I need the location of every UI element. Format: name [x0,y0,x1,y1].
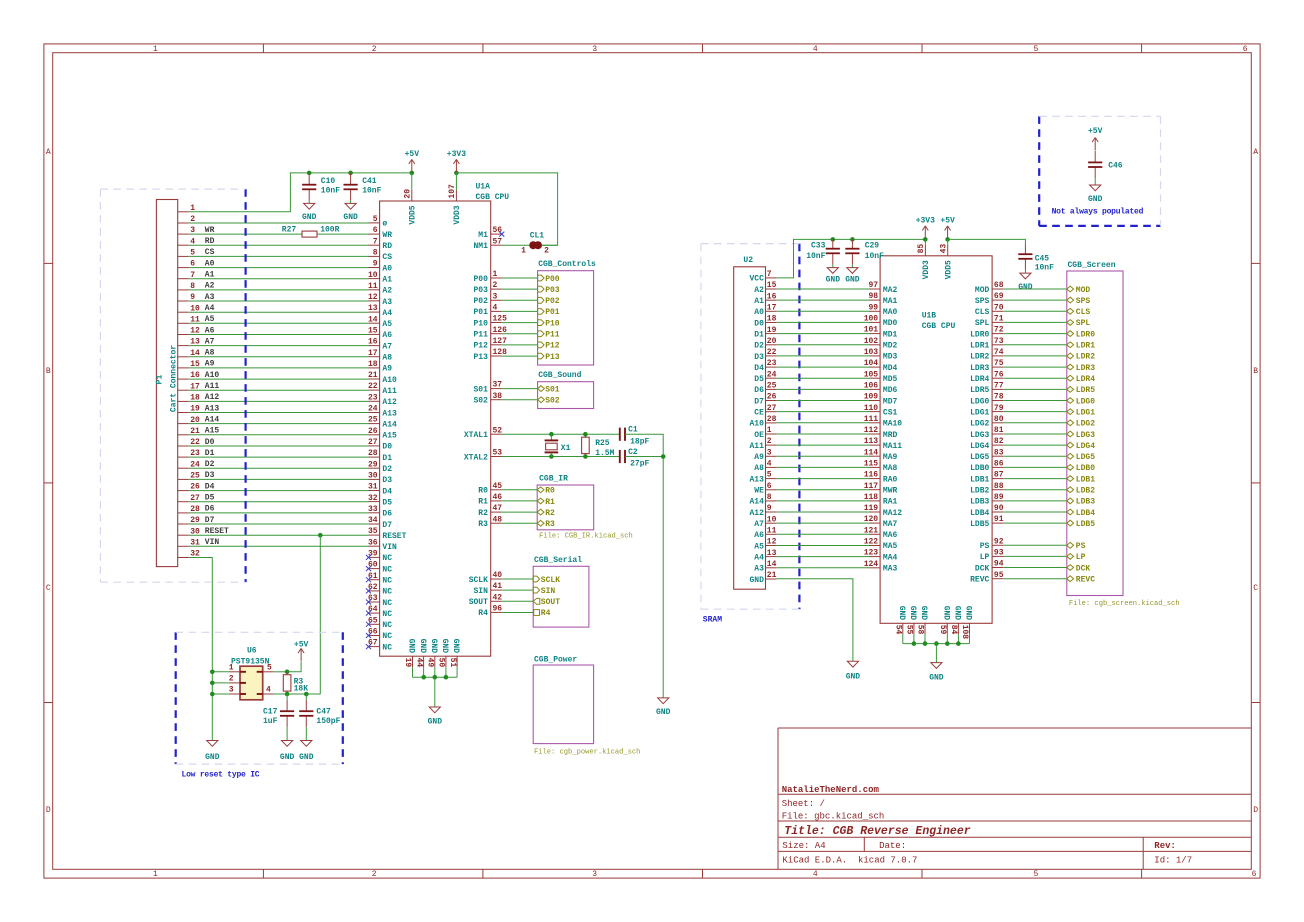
svg-text:MA9: MA9 [883,453,898,462]
svg-text:GND: GND [845,275,860,284]
P1 pin 27 [178,501,189,503]
wire P1-1 to +5V rail [189,173,412,212]
svg-text:83: 83 [994,448,1004,457]
svg-text:Rev:: Rev: [1154,841,1176,851]
U1B pin 113 MA11 [869,444,880,446]
wire U2 VCC [777,239,926,278]
svg-text:D1: D1 [382,454,392,463]
svg-text:DCK: DCK [1076,564,1091,573]
svg-text:SRAM: SRAM [703,616,722,625]
U1A pin 12 A3 [369,300,380,302]
U1A pin 28 D1 [369,456,380,458]
svg-text:WR: WR [205,226,215,235]
svg-text:50: 50 [437,658,446,668]
P1 pin 19 [178,412,189,414]
svg-text:D5: D5 [382,498,392,507]
U1B pin 43 VDD5 [947,245,949,256]
sheet pin S02 [502,399,538,401]
wire P1-19 [189,412,369,414]
svg-text:LDR0: LDR0 [1076,330,1095,339]
U2 pin 13 A4 [766,556,777,558]
svg-text:X1: X1 [561,444,571,453]
U2 pin 2 A11 [766,444,777,446]
svg-text:LDR1: LDR1 [970,342,989,351]
svg-text:+5V: +5V [1088,127,1103,136]
svg-text:A12: A12 [749,509,764,518]
P1 pin 8 [178,289,189,291]
U1A pin 41 SIN [491,589,502,591]
svg-text:A2: A2 [754,286,764,295]
wire U6 pin4 row [274,693,321,695]
U1A pin 107 VDD3 [455,190,457,201]
svg-text:RA0: RA0 [883,475,898,484]
U1A pin 27 D0 [369,445,380,447]
svg-text:39: 39 [368,550,378,559]
wire P1-25 [189,478,369,480]
P1 pin 18 [178,400,189,402]
svg-text:66: 66 [368,628,378,637]
svg-text:MA6: MA6 [883,531,898,540]
svg-text:MD5: MD5 [883,375,898,384]
ground C47 [301,741,312,747]
U6 pin 3 [229,693,240,695]
svg-text:64: 64 [368,605,378,614]
svg-text:A8: A8 [754,464,764,473]
svg-text:LDG5: LDG5 [1076,453,1095,462]
svg-text:VCC: VCC [749,275,764,284]
U1A pin 66 NC [369,635,380,637]
U1A pin 25 A14 [369,423,380,425]
U1B pin 88 LDB2 [992,489,1003,491]
U1A pin 10 A1 [369,278,380,280]
sheet pin R0 [502,489,537,491]
svg-text:MA11: MA11 [883,442,902,451]
svg-text:File: cgb_screen.kicad_sch: File: cgb_screen.kicad_sch [1069,600,1180,608]
svg-text:4: 4 [767,460,772,469]
svg-text:GND: GND [429,639,438,654]
svg-text:A2: A2 [205,282,215,291]
svg-text:65: 65 [368,616,378,625]
svg-text:95: 95 [994,571,1004,580]
svg-text:75: 75 [994,359,1004,368]
svg-text:LDR4: LDR4 [970,375,989,384]
P1 pin 26 [178,490,189,492]
svg-text:CE: CE [754,409,764,418]
svg-text:LP: LP [1076,553,1086,562]
svg-text:CL1: CL1 [530,232,545,241]
U2 pin 27 CE [766,411,777,413]
svg-text:CGB_Controls: CGB_Controls [538,260,596,269]
wire U1A GND bus [412,667,414,677]
wire U2 to U1B MD7 [777,400,869,402]
svg-text:A10: A10 [382,376,397,385]
U1B pin 77 LDR5 [992,388,1003,390]
U1B pin 98 MA1 [869,299,880,301]
wire U2 to U1B MD4 [777,366,869,368]
svg-text:File: gbc.kicad_sch: File: gbc.kicad_sch [782,812,885,822]
U2 pin 10 A7 [766,522,777,524]
svg-text:MA5: MA5 [883,542,898,551]
U1A pin 46 R1 [491,500,502,502]
svg-text:LDR3: LDR3 [970,364,989,373]
wire U2 to U1B MA2 [777,288,869,290]
svg-text:P13: P13 [545,353,560,362]
U1A pin 33 D6 [369,512,380,514]
svg-text:89: 89 [994,493,1004,502]
wire C1 C2 to GND [625,434,663,698]
U1A pin 40 SCLK [491,578,502,580]
svg-text:U2: U2 [743,256,753,265]
svg-text:CS1: CS1 [883,408,898,417]
U1B pin 70 CLS [992,310,1003,312]
sheet pin LDR3 [1003,366,1067,368]
svg-text:D6: D6 [205,505,215,514]
U1B pin 115 MA8 [869,466,880,468]
svg-text:R4: R4 [478,609,488,618]
wire P1-18 [189,400,369,402]
sheet CGB_Power [533,665,593,744]
svg-text:R2: R2 [478,509,488,518]
svg-text:97: 97 [868,281,878,290]
U1A pin 31 D4 [369,490,380,492]
svg-text:LDR3: LDR3 [1076,364,1095,373]
svg-text:P00: P00 [473,275,488,284]
P1 pin 29 [178,523,189,525]
P1 pin 28 [178,512,189,514]
P1 pin 13 [178,345,189,347]
svg-text:51: 51 [448,658,457,668]
svg-text:11: 11 [767,526,777,535]
svg-text:23: 23 [767,359,777,368]
svg-text:16: 16 [368,338,378,347]
U1A pin 6 WR [369,233,380,235]
wire U2 to U1B MD2 [777,344,869,346]
wire U2 to U1B MD1 [777,333,869,335]
svg-text:NC: NC [382,565,392,574]
svg-text:20: 20 [404,189,413,199]
sheet CGB_IR [537,485,594,530]
U1B pin 73 LDR1 [992,344,1003,346]
U2 pin 6 WE [766,489,777,491]
power +5V U6 [287,662,301,672]
U2 pin 11 A6 [766,533,777,535]
U1A pin 30 D3 [369,478,380,480]
svg-text:70: 70 [994,303,1004,312]
svg-text:VIN: VIN [205,538,220,547]
svg-text:4: 4 [493,304,498,313]
svg-text:5: 5 [1033,45,1038,54]
svg-text:2: 2 [544,247,549,256]
svg-text:GND: GND [908,606,917,621]
U2 pin 22 D3 [766,355,777,357]
svg-text:R1: R1 [478,498,488,507]
sheet pin DCK [1003,567,1067,569]
svg-text:MA7: MA7 [883,520,898,529]
svg-text:GND: GND [407,639,416,654]
svg-text:CGB CPU: CGB CPU [476,193,510,202]
U1A pin 52 XTAL1 [491,433,502,435]
svg-text:10nF: 10nF [362,187,381,196]
svg-text:A4: A4 [382,309,392,318]
svg-text:107: 107 [448,184,457,199]
U1B pin 59 GND [946,623,948,634]
wire U2 to U1B MA4 [777,556,869,558]
svg-text:D0: D0 [754,319,764,328]
svg-text:43: 43 [940,244,949,254]
wire U2 to U1B MWR [777,489,869,491]
U1A pin 65 NC [369,623,380,625]
svg-text:32: 32 [368,494,378,503]
capacitor C33 [831,237,836,242]
wire RESET to U6 [319,535,321,694]
svg-text:22: 22 [767,348,777,357]
ground U1B [931,663,942,669]
svg-text:LDG3: LDG3 [1076,431,1095,440]
U6 pin 2 [229,682,240,684]
svg-text:A10: A10 [749,420,764,429]
svg-text:2: 2 [372,45,377,54]
svg-text:A13: A13 [205,404,220,413]
ground C45 [1020,273,1031,279]
ground C17 [282,741,293,747]
U2 pin 20 D2 [766,344,777,346]
svg-text:R27: R27 [282,226,297,235]
svg-text:A: A [46,148,51,157]
U1B pin 106 MD6 [869,388,880,390]
U2 pin 25 D6 [766,388,777,390]
svg-text:LDB1: LDB1 [970,475,989,484]
U1B pin 116 RA0 [869,478,880,480]
svg-text:5: 5 [373,215,378,224]
U2 pin 9 A12 [766,511,777,513]
svg-text:LDR2: LDR2 [1076,353,1095,362]
svg-text:U1A: U1A [476,182,491,191]
svg-text:69: 69 [994,292,1004,301]
capacitor C41 [348,171,353,176]
svg-text:NC: NC [382,621,392,630]
svg-text:LDB5: LDB5 [1076,520,1095,529]
wire P1-8 [189,289,369,291]
svg-text:68: 68 [994,281,1004,290]
svg-text:PS: PS [980,542,990,551]
svg-text:R0: R0 [478,487,488,496]
svg-text:5: 5 [267,664,272,673]
svg-text:LDG1: LDG1 [970,408,989,417]
wire P1-26 [189,490,369,492]
P1 pin 14 [178,356,189,358]
wire U2 to U1B MD3 [777,355,869,357]
svg-text:A11: A11 [382,387,397,396]
U1A pin 126 P11 [491,333,502,335]
U2 pin 14 A3 [766,567,777,569]
svg-text:B: B [46,367,51,376]
svg-text:6: 6 [1243,45,1248,54]
wire P1-11 [189,322,369,324]
svg-text:D1: D1 [754,330,764,339]
svg-text:S01: S01 [545,385,560,394]
svg-text:NC: NC [382,599,392,608]
P1 pin 7 [178,278,189,280]
wire P1-21 [189,434,369,436]
svg-text:NC: NC [382,643,392,652]
wire P1-10 [189,311,369,313]
U2 pin 19 D1 [766,333,777,335]
svg-text:MD1: MD1 [883,330,898,339]
U6 pin 4 [263,693,274,695]
P1 pin 11 [178,322,189,324]
P1 pin 21 [178,434,189,436]
svg-text:LDG4: LDG4 [1076,442,1095,451]
svg-text:GND: GND [302,213,317,222]
svg-text:A15: A15 [382,432,397,441]
sheet CGB_Serial [533,566,589,627]
svg-text:A7: A7 [205,337,215,346]
U2 pin 12 A5 [766,545,777,547]
U2 pin 17 A0 [766,310,777,312]
svg-text:R1: R1 [545,498,555,507]
svg-text:Date:: Date: [879,841,906,851]
U1A pin 34 D7 [369,523,380,525]
svg-text:U6: U6 [247,647,257,656]
svg-text:57: 57 [493,237,503,246]
svg-text:36: 36 [368,538,378,547]
sheet pin R2 [502,511,537,513]
U1B pin 108 GND [969,623,971,634]
wire P1-6 [189,267,369,269]
capacitor C45 [1024,244,1026,254]
U1B pin 117 MWR [869,489,880,491]
svg-text:A8: A8 [382,354,392,363]
svg-text:1uF: 1uF [263,717,278,726]
sheet pin P11 [502,333,538,335]
U1A pin 42 SOUT [491,600,502,602]
U1A pin 15 A6 [369,333,380,335]
svg-text:24: 24 [767,370,777,379]
svg-text:D7: D7 [205,516,215,525]
svg-text:RD: RD [382,242,392,251]
svg-text:P02: P02 [473,297,488,306]
U1B pin 102 MD2 [869,344,880,346]
U1A pin 48 R3 [491,522,502,524]
svg-text:SPL: SPL [975,319,990,328]
svg-text:REVC: REVC [970,576,989,585]
U1B pin 68 MOD [992,288,1003,290]
svg-text:SPS: SPS [1076,297,1091,306]
svg-text:MWR: MWR [883,487,898,496]
svg-text:99: 99 [868,303,878,312]
power +3V3 U1B [923,237,928,242]
wire P1-9 [189,300,369,302]
svg-text:GND: GND [440,639,449,654]
svg-text:+3V3: +3V3 [916,216,935,225]
svg-text:1: 1 [153,870,158,879]
U1A pin 96 R4 [491,611,502,613]
svg-text:6: 6 [373,226,378,235]
svg-text:GND: GND [941,606,950,621]
svg-text:GND: GND [826,275,841,284]
svg-text:19: 19 [403,658,412,668]
wire U2 to U1B MA3 [777,567,869,569]
U1B pin 105 MD5 [869,377,880,379]
svg-text:37: 37 [493,381,503,390]
svg-text:D2: D2 [382,465,392,474]
U1A pin 63 NC [369,601,380,603]
svg-text:OE: OE [754,431,764,440]
svg-text:C17: C17 [263,708,278,717]
wire P1-12 [189,334,369,336]
svg-text:XTAL2: XTAL2 [464,453,488,462]
U1B pin 90 LDB4 [992,511,1003,513]
svg-text:GND: GND [656,708,671,717]
wire U2 to U1B MA0 [777,310,869,312]
wire U2 to U1B MA12 [777,511,869,513]
U1A pin 44 GND [423,656,425,667]
svg-text:LDG1: LDG1 [1076,408,1095,417]
svg-text:VIN: VIN [382,543,397,552]
svg-text:45: 45 [493,482,503,491]
sheet pin R3 [502,522,537,524]
svg-text:A1: A1 [754,297,764,306]
svg-text:A9: A9 [754,453,764,462]
annotation box not always populated [1038,116,1040,226]
svg-text:6: 6 [767,482,772,491]
svg-text:SOUT: SOUT [541,598,560,607]
P1 pin 24 [178,467,189,469]
U1A pin 53 XTAL2 [491,456,502,458]
svg-text:P11: P11 [473,331,488,340]
svg-text:GND: GND [428,718,443,727]
U1A pin 37 S01 [491,388,502,390]
P1 pin 10 [178,311,189,313]
wire U2 to U1B MD5 [777,377,869,379]
P1 pin 23 [178,456,189,458]
U1A pin 67 NC [369,646,380,648]
U1B pin 54 GND [902,623,904,634]
svg-text:A6: A6 [205,326,215,335]
svg-text:D7: D7 [382,521,392,530]
svg-text:24: 24 [368,405,378,414]
U1A pin 62 NC [369,590,380,592]
wire P1-20 [189,423,369,425]
U1A pin 127 P12 [491,344,502,346]
svg-text:NM1: NM1 [473,242,488,251]
P1 pin 31 [178,545,189,547]
svg-text:C41: C41 [362,177,377,186]
svg-text:NC: NC [382,610,392,619]
svg-text:20: 20 [767,337,777,346]
U1A pin 64 NC [369,612,380,614]
svg-text:VDD3: VDD3 [453,205,462,224]
sheet pin LDR0 [1003,333,1067,335]
svg-text:D: D [46,806,51,815]
svg-text:4: 4 [813,45,818,54]
U1B pin 112 MRD [869,433,880,435]
svg-text:CLS: CLS [1076,308,1091,317]
U1B pin 111 MA10 [869,422,880,424]
U1A pin 8 CS [369,255,380,257]
U1B pin 93 LP [992,555,1003,557]
svg-text:A11: A11 [205,382,220,391]
svg-text:A5: A5 [205,315,215,324]
svg-text:WE: WE [754,487,764,496]
svg-text:ø: ø [382,220,387,229]
svg-text:PST9135N: PST9135N [231,657,270,666]
svg-text:15: 15 [368,327,378,336]
U1A pin 56 M1 [491,233,502,235]
svg-text:6: 6 [1252,870,1257,879]
svg-text:C33: C33 [811,242,826,251]
U1B pin 78 LDG0 [992,400,1003,402]
